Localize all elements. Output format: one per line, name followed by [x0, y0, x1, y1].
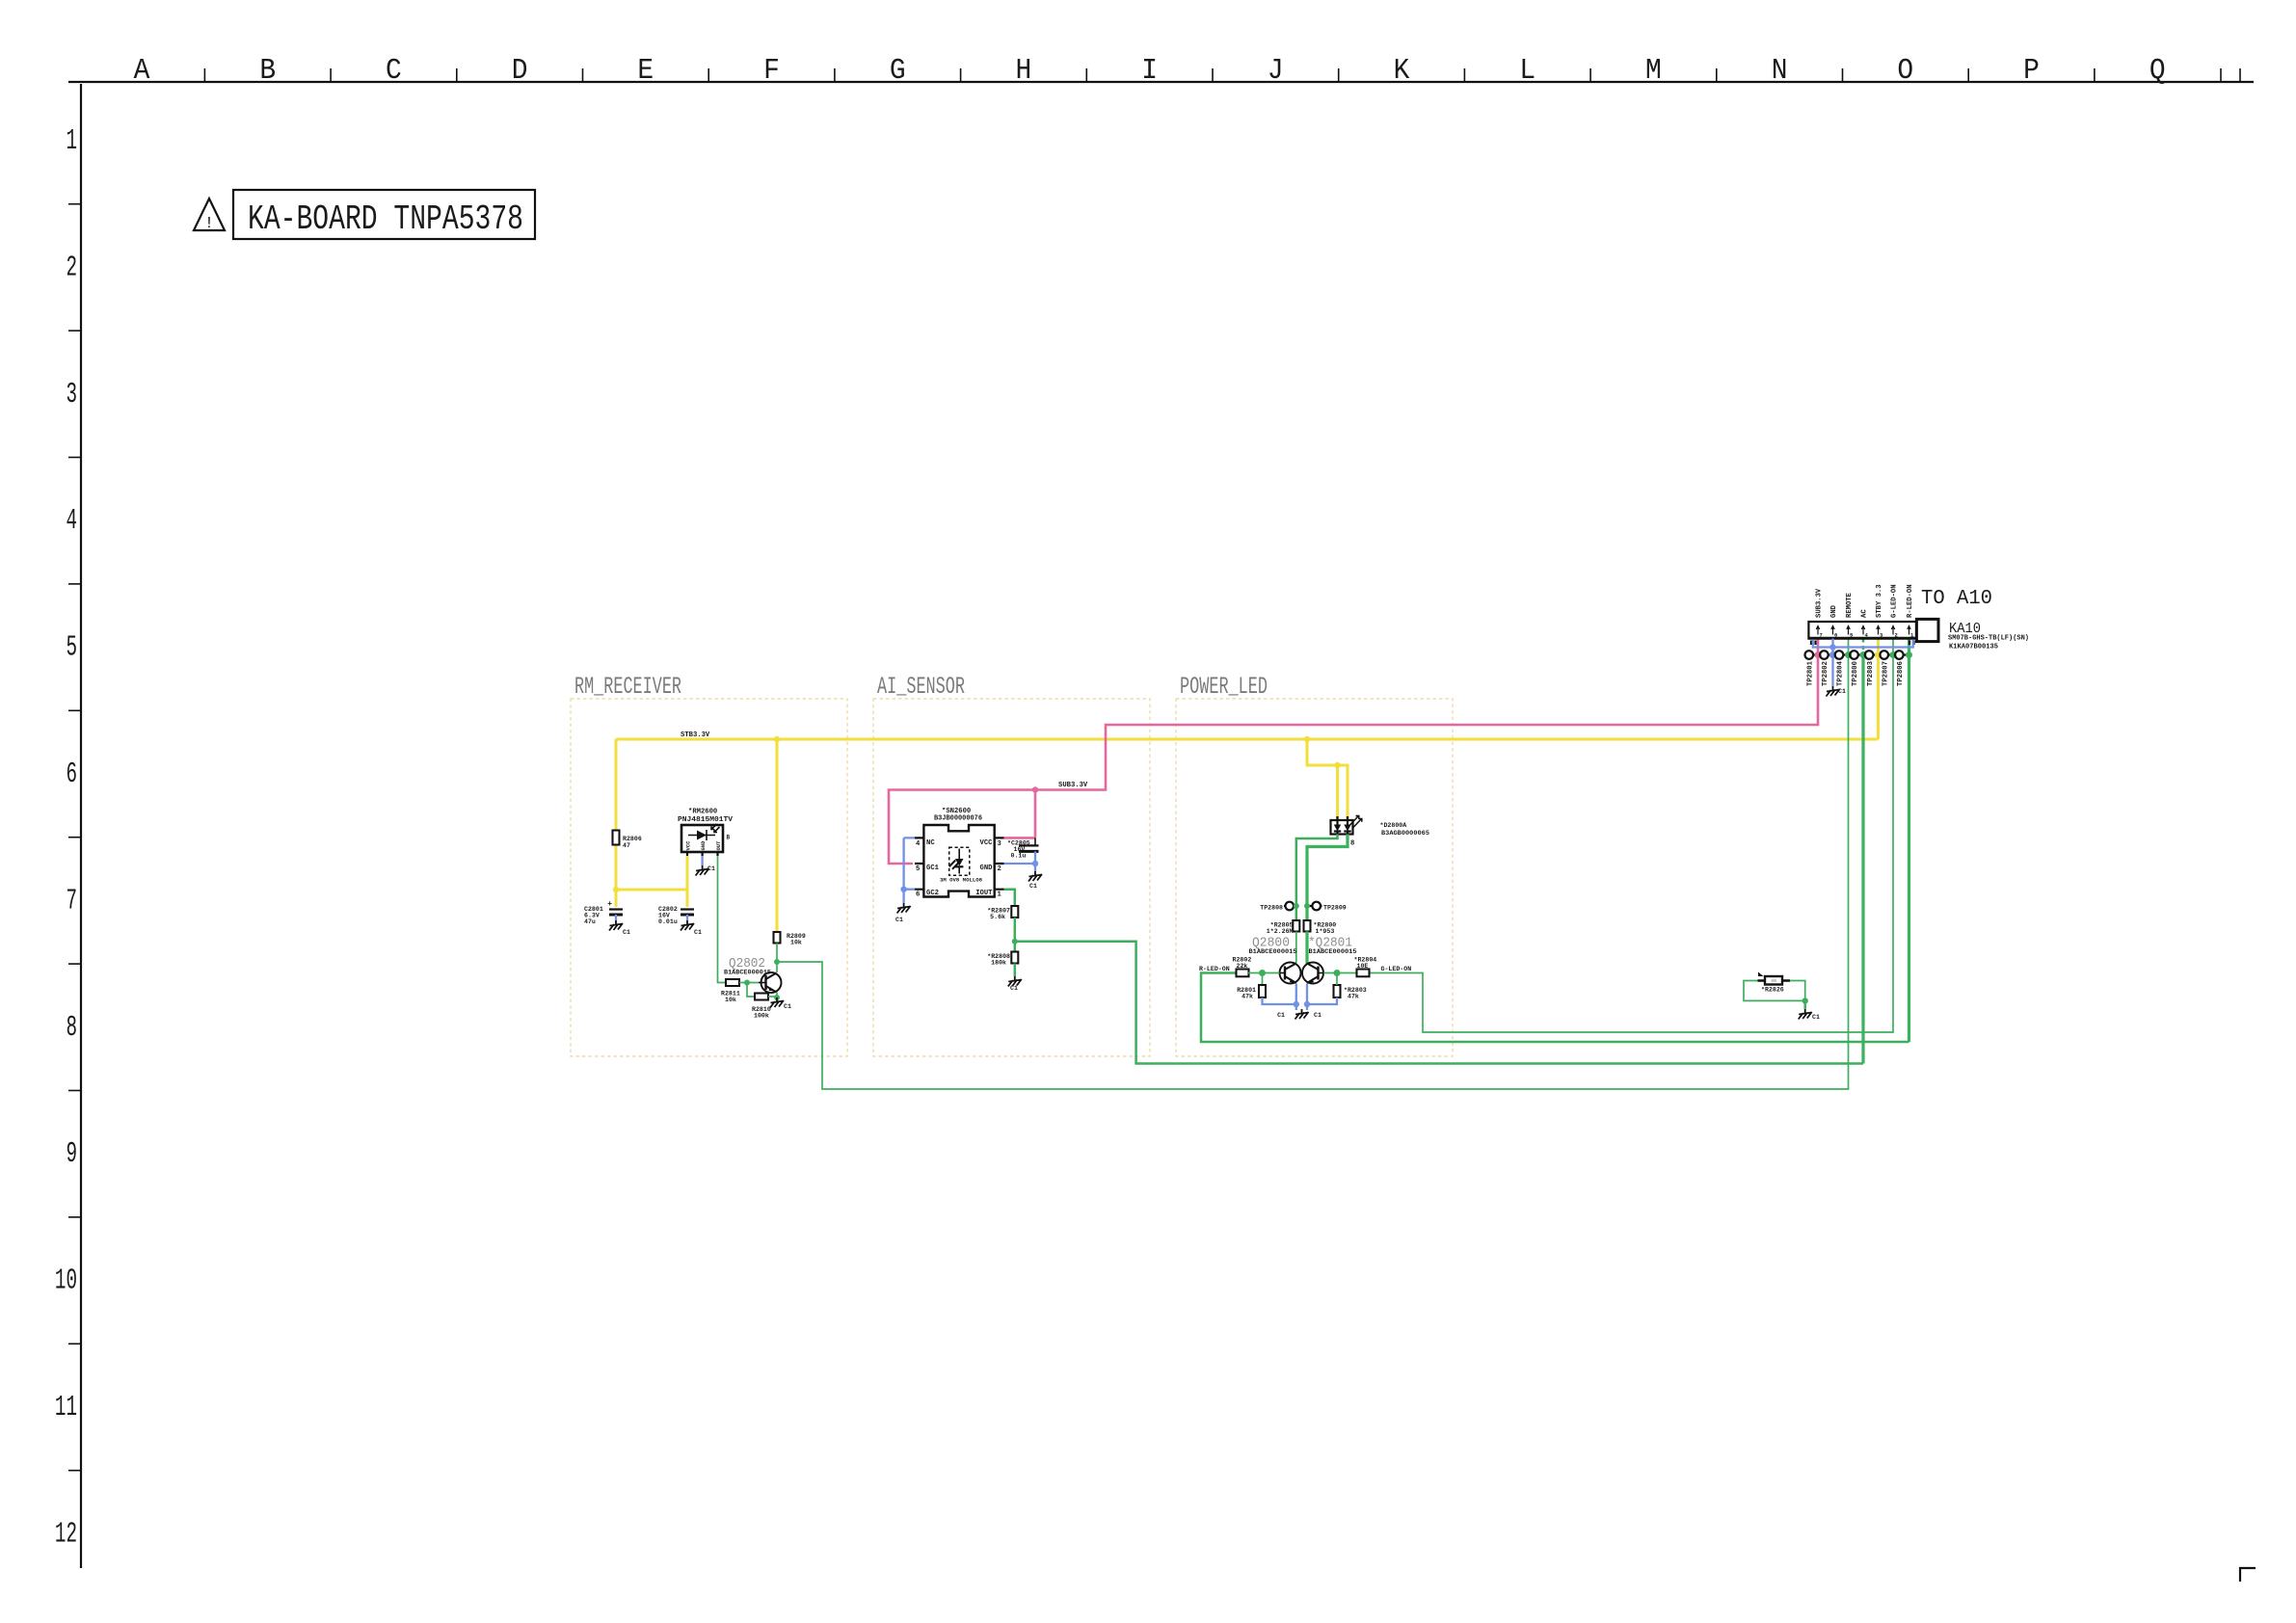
svg-text:R-LED-ON: R-LED-ON: [1907, 584, 1914, 618]
svg-text:180k: 180k: [991, 960, 1006, 967]
test point TP2801: [1805, 651, 1819, 686]
test point TP2808: [1260, 902, 1296, 912]
svg-text:TP2803: TP2803: [1867, 661, 1875, 686]
wire green R2808 to ground: [1014, 964, 1017, 977]
junction TP2807: [1890, 652, 1897, 658]
svg-text:IOUT: IOUT: [975, 890, 993, 897]
svg-text:Q: Q: [2149, 53, 2166, 88]
ground C2802: [681, 920, 702, 936]
junction green Q2802 base: [744, 980, 750, 986]
test point TP2802: [1820, 651, 1832, 686]
svg-text:STBY 3.3: STBY 3.3: [1876, 584, 1883, 618]
top border tick marks: [204, 68, 2240, 82]
svg-text:0.1u: 0.1u: [1011, 853, 1027, 860]
wire yellow RM2600 VCC pin drop: [686, 856, 689, 907]
svg-text:G: G: [890, 53, 906, 88]
wire green R2807 to R2808: [1014, 918, 1017, 952]
label Q2800: [1249, 936, 1297, 956]
svg-text:11: 11: [55, 1391, 77, 1424]
connector mounting feet: [1811, 641, 1914, 646]
svg-text:TP2802: TP2802: [1822, 661, 1829, 686]
svg-text:7: 7: [1820, 632, 1823, 639]
ground C2801: [609, 920, 630, 936]
wire yellow STBY3.3 from connector pin 3 down: [1877, 639, 1880, 740]
resistor R2802: [1233, 957, 1252, 977]
svg-text:GND: GND: [1830, 604, 1838, 618]
wire yellow RM left vertical to R2806 and caps: [615, 739, 618, 907]
column letters A-Q: [134, 53, 2166, 88]
svg-text:C1: C1: [1010, 985, 1018, 992]
svg-text:*R2826: *R2826: [1761, 987, 1784, 994]
svg-text:K: K: [1394, 53, 1410, 88]
transistor Q2801: [1302, 963, 1323, 984]
capacitor C2802: [658, 906, 694, 925]
svg-text:STB3.3V: STB3.3V: [681, 732, 710, 739]
warning triangle symbol: [194, 199, 225, 233]
junction blue right emitter: [1304, 1001, 1310, 1007]
svg-text:6: 6: [916, 891, 920, 899]
junction green at Q2802 collector: [774, 959, 780, 965]
svg-text:4: 4: [916, 840, 921, 848]
svg-text:SM07B-GHS-TB(LF)(SN): SM07B-GHS-TB(LF)(SN): [1948, 635, 2029, 643]
resistor R2804: [1354, 957, 1377, 977]
svg-text:REMOTE: REMOTE: [1846, 592, 1854, 618]
svg-text:2: 2: [1895, 632, 1898, 639]
wire green LED right cathode: [1307, 835, 1348, 921]
svg-text:GND: GND: [980, 865, 994, 872]
wire green R-LED-ON to connector pin 1: [1201, 973, 1909, 1043]
svg-text:P: P: [2023, 53, 2040, 88]
svg-text:GC2: GC2: [926, 890, 939, 897]
svg-text:C1: C1: [623, 929, 630, 936]
wire blue C2805 to GND pin: [1004, 851, 1036, 871]
junction blue GC2: [900, 887, 906, 892]
wire SUB3.3V pink from connector pin 7: [889, 639, 1818, 865]
junction green Q2800 base: [1259, 970, 1266, 976]
svg-text:B: B: [727, 835, 731, 841]
svg-text:K1KA07B00135: K1KA07B00135: [1949, 644, 1998, 652]
transistor Q2802: [724, 956, 782, 993]
svg-text:47u: 47u: [584, 918, 596, 925]
left border tick marks: [68, 204, 81, 1471]
resistor R2801: [1237, 985, 1266, 1000]
junction green emitter node: [774, 995, 780, 1000]
wire blue Q2801 emitter: [1307, 984, 1337, 1011]
transistor Q2800: [1280, 963, 1301, 984]
svg-text:1: 1: [66, 124, 77, 158]
svg-text:SUB3.3V: SUB3.3V: [1816, 588, 1824, 618]
wire green R2826 loop: [1744, 981, 1805, 1001]
wire green base to R2801: [1262, 973, 1264, 986]
wire green R2826 to ground: [1803, 1000, 1806, 1009]
wire green AC from AI sensor to connector pin 4: [1015, 942, 1863, 1064]
label D2800A: [1380, 822, 1430, 837]
junction TP2808: [1294, 903, 1299, 909]
wire pink C2805/VCC branch: [1004, 790, 1036, 838]
wire green LED left cathode: [1296, 835, 1338, 921]
svg-text:GC1: GC1: [926, 865, 940, 872]
bottom-right corner mark: [2240, 1568, 2256, 1582]
test point TP2804: [1835, 651, 1849, 686]
ground Q2802: [770, 998, 791, 1010]
wire green base to R2810: [747, 983, 755, 998]
svg-text:B3JB00000076: B3JB00000076: [934, 815, 982, 823]
junction TP2806: [1906, 652, 1912, 658]
connector pin symbols and numbers 7..1: [1816, 626, 1914, 639]
resistor R2808: [987, 952, 1018, 967]
svg-text:0.01u: 0.01u: [658, 918, 678, 925]
test point TP2807: [1880, 651, 1893, 686]
wire green IOUT to R2807: [1004, 890, 1015, 906]
capacitor C2801: [584, 900, 623, 925]
svg-text:*D2800A: *D2800A: [1380, 822, 1407, 829]
schematic frame top border line: [68, 81, 2254, 83]
svg-text:C1: C1: [1277, 1012, 1285, 1019]
svg-text:2: 2: [998, 865, 1001, 873]
test point TP2803: [1865, 651, 1879, 686]
svg-text:TP2804: TP2804: [1837, 660, 1845, 686]
svg-text:C1: C1: [1812, 1014, 1820, 1021]
svg-text:TP2809: TP2809: [1323, 905, 1347, 912]
wire blue AI NC/GC2 to ground: [904, 838, 915, 903]
svg-text:H: H: [1016, 53, 1032, 88]
svg-text:3: 3: [998, 840, 1001, 848]
resistor R2811: [721, 979, 740, 1003]
svg-text:10k: 10k: [725, 997, 736, 1003]
svg-text:VCC: VCC: [980, 839, 994, 847]
dashed block outline RM_RECEIVER: [571, 699, 847, 1056]
svg-text:47k: 47k: [1241, 994, 1253, 1000]
svg-text:C1: C1: [784, 1003, 791, 1010]
svg-text:+: +: [607, 900, 612, 909]
svg-text:47k: 47k: [1348, 994, 1359, 1000]
junction yellow at POWER_LED branch: [1304, 736, 1310, 742]
wire blue connector ground bracket: [1813, 640, 1913, 648]
svg-text:G-LED-ON: G-LED-ON: [1381, 966, 1412, 972]
junction green AI divider: [1012, 939, 1018, 945]
svg-text:NC: NC: [926, 839, 935, 847]
junction TP2800: [1860, 652, 1867, 658]
wire green RM2600 OUT to R2811: [718, 856, 727, 983]
svg-text:TP2800: TP2800: [1852, 661, 1859, 686]
wire yellow POWER_LED drop and jog: [1307, 739, 1348, 820]
svg-text:4: 4: [66, 504, 77, 538]
svg-text:C1: C1: [1314, 1012, 1322, 1019]
svg-text:47: 47: [623, 842, 630, 849]
resistor R2803: [1334, 985, 1367, 1000]
svg-text:N: N: [1772, 53, 1788, 88]
wire green G-LED-ON to connector pin 2: [1369, 639, 1893, 1033]
junction yellow at RM jog: [613, 887, 619, 892]
svg-text:10E: 10E: [1357, 963, 1369, 970]
svg-text:C1: C1: [895, 917, 903, 923]
connector KA10 body: [1808, 622, 1918, 638]
dashed block outline AI_SENSOR: [873, 699, 1150, 1056]
label Q2801: [1308, 936, 1357, 956]
junction green R2826: [1802, 998, 1808, 1003]
svg-text:D: D: [512, 53, 528, 88]
ground AI left: [895, 903, 911, 923]
svg-text:8: 8: [66, 1011, 77, 1045]
resistor R2807: [987, 906, 1018, 920]
svg-text:TP2806: TP2806: [1897, 661, 1905, 686]
wire green base to R2803: [1336, 973, 1338, 986]
svg-text:R2806: R2806: [623, 836, 642, 842]
junction yellow at LED anode branch: [1334, 762, 1340, 768]
wire green R2809 to Q2802 collector: [776, 944, 778, 973]
svg-text:10: 10: [55, 1264, 77, 1297]
ground R2808: [1008, 976, 1022, 992]
svg-text:AC: AC: [1861, 609, 1869, 618]
resistor R2809: [774, 932, 806, 946]
svg-text:I: I: [1141, 53, 1158, 88]
ground R2826: [1799, 1009, 1820, 1021]
svg-text:3: 3: [66, 378, 77, 412]
junction yellow at R2809 branch: [774, 736, 780, 742]
svg-text:C1: C1: [694, 929, 702, 936]
svg-text:SUB3.3V: SUB3.3V: [1058, 782, 1088, 789]
svg-text:GND: GND: [700, 840, 707, 851]
svg-text:E: E: [637, 53, 654, 88]
svg-text:C1: C1: [1838, 688, 1846, 695]
resistor R2805: [1267, 920, 1300, 935]
wire blue GND pin 6 drop: [1831, 639, 1833, 687]
svg-text:RM_RECEIVER: RM_RECEIVER: [574, 673, 681, 701]
svg-text:A: A: [134, 53, 150, 88]
svg-text:6: 6: [1834, 632, 1837, 639]
svg-text:2: 2: [66, 251, 77, 284]
svg-text:100k: 100k: [754, 1013, 769, 1020]
wire green R2802 to Q2800 base: [1248, 972, 1280, 974]
resistor R2810: [752, 994, 771, 1020]
svg-text:B1ABCE000015: B1ABCE000015: [1309, 948, 1357, 955]
ground below connector: [1827, 686, 1840, 697]
wire yellow branch to R2809: [776, 739, 779, 932]
svg-text:5.6k: 5.6k: [990, 914, 1005, 920]
svg-text:PNJ4815M01TV: PNJ4815M01TV: [678, 816, 734, 824]
junction green Q2801 base: [1334, 970, 1341, 976]
wire blue RM2600 GND pin: [701, 856, 703, 865]
svg-text:*RM2600: *RM2600: [688, 809, 717, 816]
wire STB3.3V yellow main horizontal: [616, 738, 1879, 741]
svg-text:10k: 10k: [790, 940, 802, 946]
svg-text:TP2807: TP2807: [1882, 661, 1889, 686]
schematic frame left border line: [80, 84, 82, 1568]
svg-text:5: 5: [66, 630, 77, 664]
svg-text:VCC: VCC: [685, 840, 692, 851]
svg-text:C1: C1: [1029, 883, 1037, 890]
svg-text:M: M: [1645, 53, 1662, 88]
svg-text:F: F: [763, 53, 780, 88]
svg-text:KA-BOARD TNPA5378: KA-BOARD TNPA5378: [248, 200, 523, 239]
svg-text:C1: C1: [707, 865, 715, 872]
svg-text:5: 5: [916, 865, 920, 873]
wire green Q2801 base to R2804: [1323, 972, 1357, 974]
junction TP2802: [1829, 652, 1836, 658]
ground Q2800 Q2801 common: [1277, 1009, 1322, 1020]
junction blue on bracket: [1829, 644, 1835, 650]
wire green R2805 to Q2800 collector: [1295, 932, 1297, 964]
dual LED D2800A: [1331, 816, 1362, 835]
svg-text:12: 12: [55, 1517, 77, 1551]
title box KA-BOARD TNPA5378: [233, 190, 535, 239]
resistor R2826: [1758, 972, 1791, 994]
capacitor C2805: [1007, 838, 1039, 859]
svg-text:7: 7: [66, 884, 77, 918]
svg-text:O: O: [1897, 53, 1913, 88]
svg-text:6: 6: [66, 758, 77, 791]
resistor R2800: [1304, 920, 1337, 935]
wire green R2811 to base: [739, 982, 759, 984]
wire green R2800 to Q2801 collector: [1305, 932, 1308, 965]
ground C2805: [1028, 871, 1042, 890]
wire blue Q2800 emitter: [1263, 984, 1296, 1011]
svg-text:B1ABCE000015: B1ABCE000015: [1249, 948, 1297, 955]
svg-text:AI_SENSOR: AI_SENSOR: [877, 673, 965, 701]
svg-text:TP2808: TP2808: [1260, 905, 1283, 912]
ground RM2600: [696, 865, 709, 876]
svg-text:J: J: [1268, 53, 1284, 88]
svg-text:L: L: [1519, 53, 1535, 88]
svg-text:TO A10: TO A10: [1921, 588, 1992, 610]
svg-text:3M OV8 MOLLO8: 3M OV8 MOLLO8: [940, 878, 982, 884]
dashed block outline POWER_LED: [1176, 699, 1453, 1056]
test point TP2806: [1895, 651, 1909, 686]
junction pink at C2805 branch: [1032, 786, 1038, 792]
wire green REMOTE from Q2802 collector to connector pin 5: [777, 639, 1849, 1090]
wire green AC dashed stub at connector: [1862, 639, 1865, 655]
svg-text:8: 8: [1350, 840, 1354, 848]
junction TP2803: [1875, 652, 1882, 658]
svg-text:B3AGB0000065: B3AGB0000065: [1381, 830, 1429, 837]
test point TP2809: [1307, 902, 1347, 912]
svg-text:22k: 22k: [1237, 963, 1248, 970]
junction TP2804: [1845, 652, 1852, 658]
junction TP2801: [1815, 652, 1822, 658]
svg-text:!: !: [204, 215, 214, 233]
svg-text:R-LED-ON: R-LED-ON: [1199, 966, 1230, 972]
row numbers 1-12: [55, 124, 77, 1551]
junction blue left emitter: [1294, 1001, 1299, 1007]
IC SN2600 AI sensor: [915, 808, 1004, 899]
resistor R2806: [613, 831, 642, 850]
svg-text:OUT: OUT: [715, 840, 722, 851]
IC RM2600 IR receiver: [678, 809, 734, 857]
svg-text:G-LED-ON: G-LED-ON: [1891, 584, 1899, 618]
connector pin net labels rotated: [1816, 584, 1915, 618]
svg-text:9: 9: [66, 1137, 77, 1171]
connector KA10 end cap square: [1916, 619, 1938, 641]
test point TP2800: [1850, 651, 1863, 686]
svg-text:1: 1: [998, 891, 1002, 899]
junction blue C2805: [1032, 861, 1038, 866]
svg-text:TP2801: TP2801: [1807, 660, 1815, 686]
wire yellow RM jog horizontal: [616, 889, 687, 891]
svg-text:B: B: [259, 53, 276, 88]
wire green Q2802 emitter to ground: [776, 993, 778, 998]
svg-text:1*953: 1*953: [1316, 928, 1335, 935]
svg-text:1*2.26M: 1*2.26M: [1267, 928, 1294, 935]
svg-text:POWER_LED: POWER_LED: [1180, 673, 1268, 701]
junction TP2809: [1304, 903, 1310, 909]
svg-text:C: C: [386, 53, 402, 88]
wire green R2810 to emitter node: [768, 996, 777, 998]
